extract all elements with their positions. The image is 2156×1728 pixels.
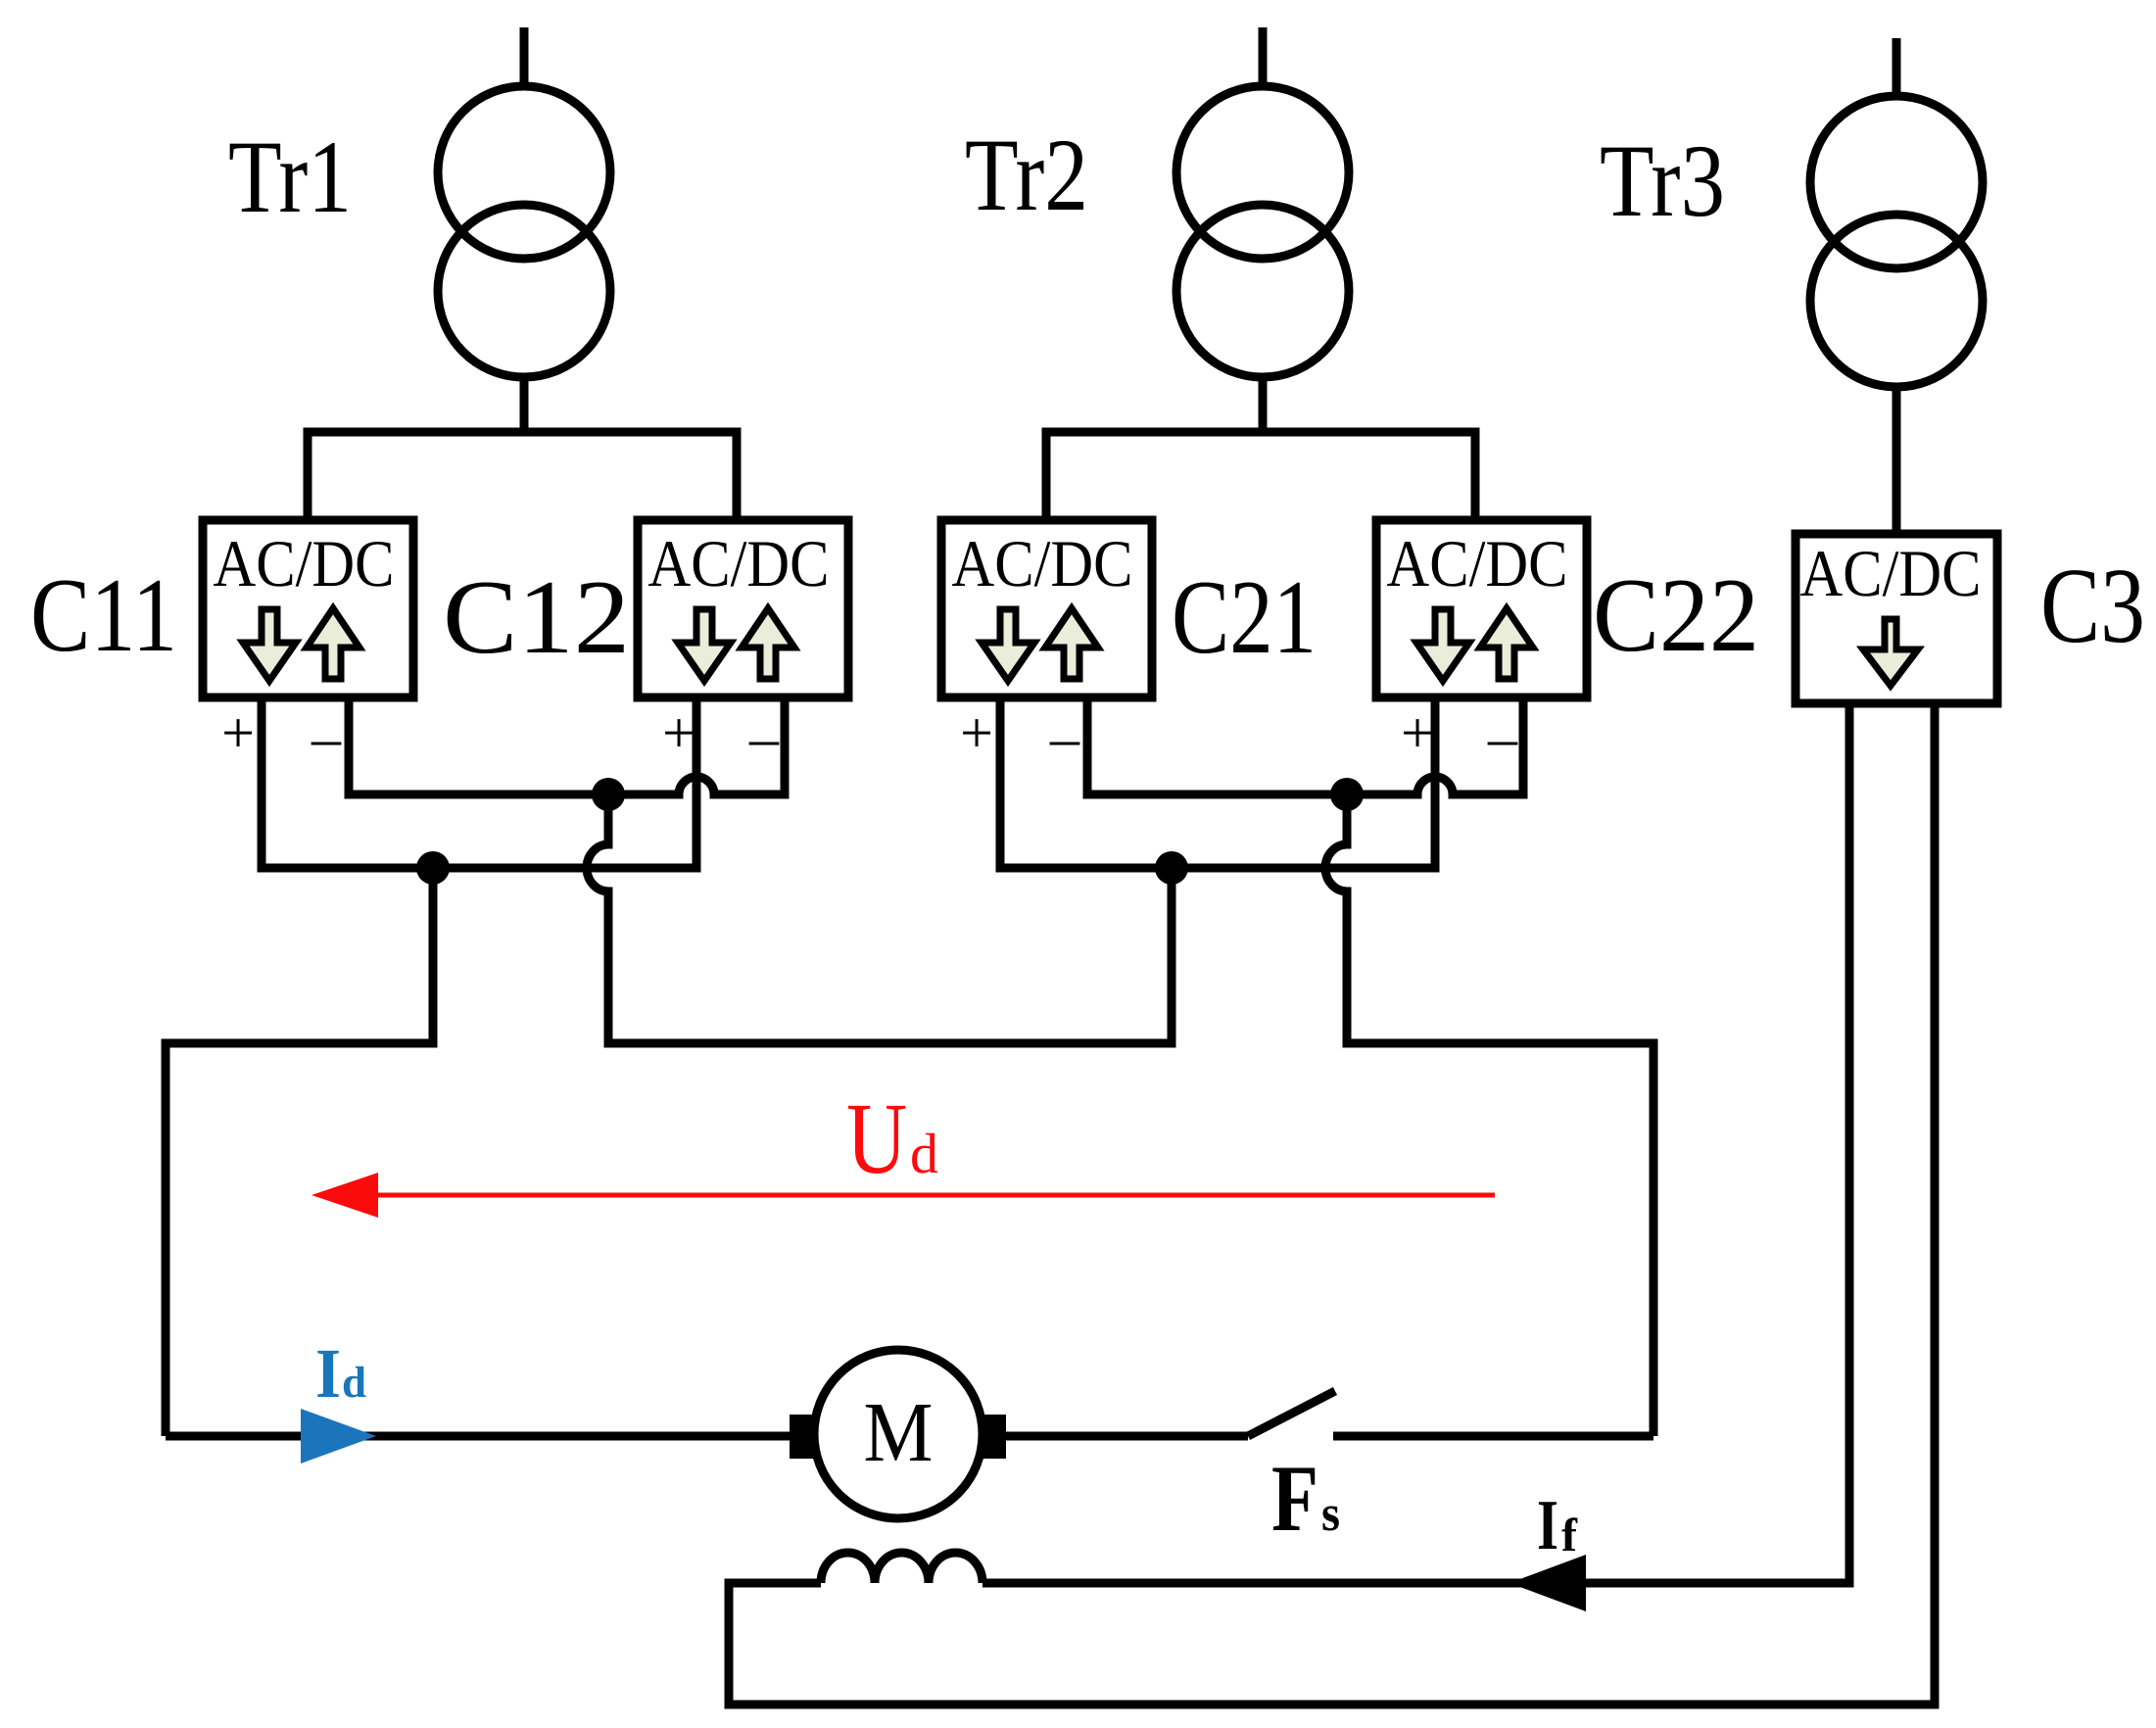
wire group2 minus descender to loop right [1325, 794, 1653, 1436]
svg-text:Tr1: Tr1 [228, 120, 352, 234]
svg-text:AC/DC: AC/DC [952, 526, 1133, 600]
current arrow Id [301, 1409, 376, 1464]
wire field line left and bottom return to C3 right output [729, 703, 1935, 1704]
inductor field winding [821, 1553, 982, 1583]
wire group1 positive bus [262, 697, 696, 868]
svg-text:AC/DC: AC/DC [214, 526, 395, 600]
converter C3 [1796, 534, 1997, 703]
converter C12 [638, 520, 848, 697]
svg-text:Tr3: Tr3 [1600, 123, 1725, 238]
svg-text:Tr2: Tr2 [965, 118, 1088, 232]
svg-text:C3: C3 [2040, 546, 2145, 665]
transformer Tr2 [1176, 27, 1349, 432]
svg-text:AC/DC: AC/DC [648, 526, 830, 600]
wire motor line left [166, 1432, 790, 1441]
wire group1 plus to loop left [166, 868, 433, 1436]
svg-text:M: M [864, 1384, 934, 1479]
wire group2 negative bus with hop over C22 plus [1087, 697, 1523, 794]
transformer Tr1 [438, 27, 610, 432]
svg-text:d: d [910, 1122, 938, 1185]
svg-text:C12: C12 [443, 559, 630, 676]
svg-text:AC/DC: AC/DC [1387, 526, 1568, 600]
wire group1 minus descender with hop over positive bus [587, 794, 1172, 1043]
svg-text:+: + [1401, 700, 1434, 765]
switch Fs blade [1248, 1391, 1335, 1436]
svg-text:C22: C22 [1593, 557, 1759, 674]
wire group1 negative bus with hop over C12 plus [349, 697, 785, 794]
converter C22 [1376, 520, 1587, 697]
wire Tr2 feeder bus [1046, 432, 1475, 520]
svg-text:–: – [748, 705, 780, 770]
svg-text:f: f [1561, 1510, 1578, 1561]
svg-text:C21: C21 [1172, 559, 1317, 676]
node group2 negative junction [1330, 778, 1364, 811]
svg-text:d: d [342, 1358, 366, 1407]
wire Tr1 feeder bus [308, 432, 737, 520]
converter C21 [941, 520, 1152, 697]
voltage arrow Ud [311, 1173, 1495, 1218]
svg-text:+: + [960, 700, 993, 765]
svg-text:+: + [662, 700, 695, 765]
wire group2 positive bus [1000, 697, 1435, 868]
wire switch to loop right [1333, 1432, 1653, 1441]
svg-text:I: I [315, 1334, 341, 1413]
svg-text:I: I [1537, 1485, 1558, 1564]
wire C3 left output to field line [982, 703, 1849, 1583]
motor M [790, 1350, 1006, 1518]
node group1 positive junction [416, 851, 450, 885]
node group1 negative junction [592, 778, 625, 811]
transformer Tr3 [1810, 38, 1983, 534]
svg-text:C11: C11 [30, 557, 177, 674]
current arrow If [1509, 1555, 1586, 1611]
svg-text:–: – [1049, 705, 1080, 770]
svg-text:AC/DC: AC/DC [1800, 536, 1982, 610]
svg-text:–: – [1487, 705, 1518, 770]
wire motor line right [1006, 1432, 1248, 1441]
node group2 positive junction [1155, 851, 1188, 885]
svg-text:+: + [221, 700, 255, 765]
svg-text:U: U [846, 1082, 907, 1195]
svg-text:F: F [1271, 1446, 1318, 1551]
converter C11 [203, 520, 413, 697]
svg-text:–: – [311, 705, 342, 770]
svg-text:s: s [1321, 1486, 1340, 1542]
